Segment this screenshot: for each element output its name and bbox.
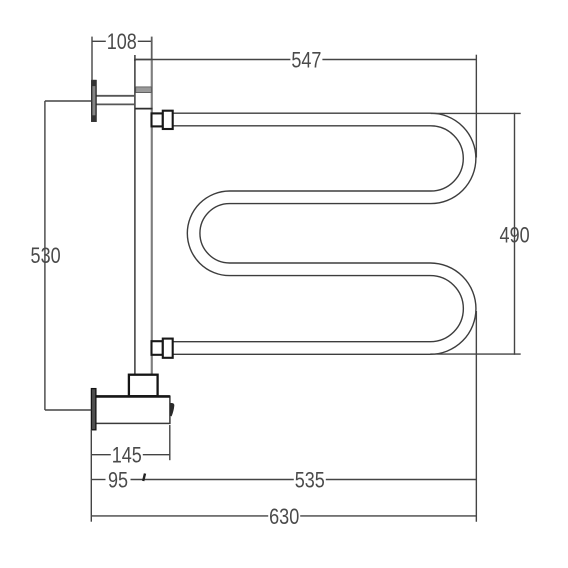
dim 630 label	[269, 505, 299, 529]
top mounting arm lower line	[96, 103, 135, 105]
dim 490 bottom extension (pipe bottom edge extended)	[430, 353, 520, 355]
motor body thick top edge	[94, 395, 170, 398]
dim 490 vertical line	[514, 113, 516, 355]
dim 490 top extension (pipe top edge extended)	[431, 112, 521, 114]
post collar band	[136, 87, 152, 93]
svg-text:108: 108	[107, 31, 137, 55]
power cable stub	[170, 403, 174, 416]
svg-text:145: 145	[112, 444, 142, 468]
dim 490 label	[500, 224, 530, 248]
dim 535 label	[295, 469, 325, 493]
right extension line lower (x=476)	[475, 311, 477, 522]
dim 95/535 line segment c	[326, 479, 477, 481]
serpentine pipe outer outline	[171, 120, 470, 349]
dim 630 line right segment	[300, 515, 476, 517]
dim 530 top extension	[45, 100, 92, 102]
base cap	[129, 375, 158, 397]
right extension line upper (x=476)	[475, 55, 477, 158]
dim 145 right extension	[169, 425, 171, 460]
bottom pipe union nut small	[152, 341, 163, 355]
top mounting arm upper line	[96, 95, 135, 97]
post left edge overshoot	[134, 55, 136, 61]
dim 547 line right segment	[322, 59, 476, 61]
dim 530 label	[31, 244, 61, 268]
post right edge (grey thicker)	[151, 60, 153, 375]
dim 108 left extension	[91, 37, 93, 81]
dim 95 slash tick	[143, 474, 145, 482]
post cross line	[135, 108, 153, 110]
top wall flange dark caps	[91, 80, 96, 86]
dim 108 line left segment	[92, 40, 106, 42]
left bottom extension line (x=91.3)	[90, 430, 92, 522]
motor body	[94, 396, 170, 423]
dim 95/535 line segment a	[91, 479, 105, 481]
dim 95/535 line segment b	[131, 479, 294, 481]
svg-text:490: 490	[500, 224, 530, 248]
dim 145 line left segment	[91, 454, 111, 456]
dim 530 vertical line	[44, 101, 46, 410]
bottom pipe union nut large	[163, 339, 173, 358]
svg-text:530: 530	[31, 244, 61, 268]
dim 95 label	[108, 469, 128, 493]
dim 547 line left segment	[135, 59, 291, 61]
svg-text:535: 535	[295, 469, 325, 493]
bottom wall flange	[91, 389, 96, 430]
top pipe union nut small	[152, 113, 163, 126]
svg-text:95: 95	[108, 469, 128, 493]
dim 108 line right segment	[138, 40, 152, 42]
dim 630 line left segment	[91, 515, 268, 517]
top pipe union nut large	[163, 111, 173, 129]
dim 108 right extension	[151, 37, 153, 60]
dim 145 line right segment	[143, 454, 170, 456]
svg-text:547: 547	[291, 49, 321, 73]
dim 547 label	[291, 49, 321, 73]
vertical post	[135, 60, 152, 375]
svg-text:630: 630	[269, 505, 299, 529]
dim 530 bottom extension	[45, 409, 91, 411]
top wall flange	[92, 81, 96, 122]
serpentine pipe hollow	[171, 120, 470, 349]
dim 108 label	[107, 31, 137, 55]
dim 145 label	[112, 444, 142, 468]
